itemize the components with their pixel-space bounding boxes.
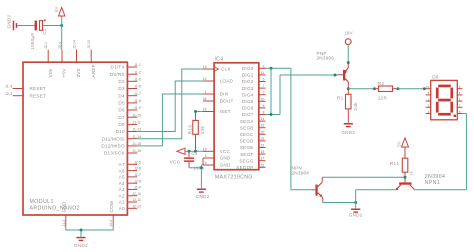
svg-text:J2-2: J2-2 bbox=[109, 220, 113, 227]
svg-text:D1/TX: D1/TX bbox=[111, 65, 125, 70]
svg-text:J2-1: J2-1 bbox=[44, 42, 48, 49]
svg-text:3V3: 3V3 bbox=[76, 68, 81, 77]
svg-text:R1: R1 bbox=[337, 96, 344, 101]
svg-text:J2-3: J2-3 bbox=[5, 92, 12, 96]
svg-text:J2-8: J2-8 bbox=[134, 179, 141, 183]
module MODUL1 ARDUINO_NANO2 body bbox=[23, 62, 127, 215]
node PNP collector junction bbox=[347, 87, 350, 90]
display D6 right pin 3 bbox=[457, 97, 462, 101]
supply 18V (circle) bbox=[344, 31, 352, 45]
IC4 pin 18 ISET bbox=[203, 108, 231, 115]
ground GND2 (below IC4) bbox=[196, 189, 210, 199]
svg-text:A1: A1 bbox=[119, 200, 125, 205]
svg-text:J1-4: J1-4 bbox=[62, 220, 66, 227]
svg-text:J1-7: J1-7 bbox=[134, 92, 141, 96]
transistor Q2 NPN 2N3904 bbox=[292, 166, 323, 203]
svg-text:J2-9: J2-9 bbox=[134, 186, 141, 190]
module pin D1/TX (J1-1) bbox=[111, 63, 142, 70]
svg-text:GND2: GND2 bbox=[196, 194, 210, 199]
svg-text:SEGA: SEGA bbox=[240, 119, 254, 124]
svg-text:2: 2 bbox=[263, 64, 265, 68]
wire net D12/MISO to DIN bbox=[137, 94, 203, 146]
svg-text:SEGF: SEGF bbox=[240, 152, 254, 157]
node PNP base junction bbox=[334, 74, 337, 77]
IC4 pin 10 DIG5 bbox=[242, 97, 266, 104]
IC4 pin 9 GND bbox=[203, 161, 231, 168]
module pin D10 (J1-13) bbox=[116, 128, 141, 135]
svg-text:D2: D2 bbox=[118, 79, 125, 84]
svg-text:J1-9: J1-9 bbox=[134, 106, 141, 110]
svg-text:J1-5: J1-5 bbox=[134, 77, 141, 81]
IC4 pin 4 GND bbox=[203, 154, 231, 161]
IC4 pin 20 SEGC bbox=[240, 130, 266, 137]
display D6 right pin 6 bbox=[457, 85, 462, 89]
IC4 pin 5 DIG6 bbox=[242, 104, 266, 111]
wire ground to C2 bbox=[17, 25, 34, 27]
ground GND2 (top left) bbox=[7, 14, 18, 30]
svg-text:ARDUINO_NANO2: ARDUINO_NANO2 bbox=[30, 206, 81, 212]
IC4 pin 2 DIG0 bbox=[242, 64, 266, 71]
node display anode junction bbox=[423, 87, 426, 90]
module pin 3V3 (J2-14) bbox=[72, 40, 81, 77]
svg-text:DIG3: DIG3 bbox=[242, 86, 254, 91]
svg-text:J2-7: J2-7 bbox=[134, 173, 141, 177]
svg-text:C3: C3 bbox=[191, 151, 197, 156]
resistor R19 10k bbox=[188, 112, 205, 152]
svg-text:J2-5: J2-5 bbox=[134, 160, 141, 164]
svg-text:6: 6 bbox=[263, 78, 265, 82]
svg-text:5V: 5V bbox=[54, 6, 59, 12]
svg-text:VIN: VIN bbox=[48, 69, 53, 77]
node VCC junctions bbox=[188, 150, 198, 153]
svg-text:7: 7 bbox=[263, 84, 265, 88]
svg-text:A4: A4 bbox=[119, 181, 125, 186]
ground GND2 (below module) bbox=[74, 237, 88, 248]
svg-text:J2-14: J2-14 bbox=[72, 40, 76, 49]
svg-text:D10: D10 bbox=[116, 129, 125, 134]
IC4 pin 12 LOAD bbox=[203, 77, 234, 84]
svg-text:SEGG: SEGG bbox=[239, 158, 253, 163]
svg-text:SEGE: SEGE bbox=[240, 145, 254, 150]
IC4 pin 8 DIG7 bbox=[242, 111, 266, 118]
svg-text:SEGD: SEGD bbox=[240, 139, 254, 144]
IC4 pin 7 DIG3 bbox=[242, 84, 266, 91]
node ground junction (module bottom) bbox=[80, 229, 83, 232]
op-amp-style IC U1: IC4 MAX7219CNG body bbox=[214, 56, 259, 180]
svg-text:RESET: RESET bbox=[30, 86, 47, 91]
resistor R2 22R bbox=[375, 81, 399, 101]
svg-text:5: 5 bbox=[263, 104, 265, 108]
svg-text:J1-1: J1-1 bbox=[134, 63, 141, 67]
svg-text:D4: D4 bbox=[118, 93, 125, 98]
wire net D11/MOSI to CLK bbox=[137, 69, 203, 139]
svg-text:J1-10: J1-10 bbox=[132, 113, 141, 117]
supply VCC arrow (left) bbox=[170, 148, 185, 164]
svg-text:DIG6: DIG6 bbox=[242, 106, 254, 111]
svg-text:D13/SCK: D13/SCK bbox=[104, 151, 126, 156]
module pin A3 (J2-9) bbox=[119, 186, 141, 193]
supply 5V arrow (right) bbox=[397, 138, 409, 158]
svg-text:15: 15 bbox=[261, 150, 265, 154]
resistor R1 24k bbox=[337, 89, 358, 123]
module pin +5V (J2-4) bbox=[58, 42, 67, 77]
module pin RESET (J1-3) bbox=[5, 85, 46, 92]
node DIG7 junction bbox=[270, 113, 273, 116]
wire 18V to PNP emitter bbox=[347, 45, 349, 63]
node C3/GND junction bbox=[200, 166, 203, 169]
svg-text:2N3904: 2N3904 bbox=[292, 170, 310, 175]
module pin D11/MOSI (J1-14) bbox=[102, 135, 141, 142]
module pin A7 (J2-5) bbox=[119, 160, 141, 167]
svg-text:J1-6: J1-6 bbox=[134, 85, 141, 89]
module pin A2 (J2-10) bbox=[119, 192, 141, 199]
svg-text:DIG1: DIG1 bbox=[242, 73, 254, 78]
node R11/NPN1 base junction bbox=[404, 176, 407, 179]
svg-text:J1-2: J1-2 bbox=[134, 70, 141, 74]
IC4 pin 21 SEGE bbox=[240, 144, 266, 151]
svg-text:J1-16: J1-16 bbox=[132, 149, 141, 153]
node ISET junction bbox=[194, 110, 197, 113]
svg-text:R2: R2 bbox=[378, 81, 385, 86]
module pin D2 (J1-5) bbox=[118, 77, 141, 84]
IC4 pin 1 DIN bbox=[203, 90, 228, 97]
node R2 right junction bbox=[397, 87, 400, 90]
wire emitter node to NPN1 emitter bbox=[356, 190, 396, 203]
svg-text:DIG0: DIG0 bbox=[242, 66, 254, 71]
transistor Q3 2N3904 NPN1 bbox=[396, 174, 445, 190]
svg-text:8: 8 bbox=[263, 111, 265, 115]
svg-text:A7: A7 bbox=[119, 162, 125, 167]
svg-text:J1-3: J1-3 bbox=[5, 85, 12, 89]
module pin A1 (J2-11) bbox=[119, 198, 141, 205]
svg-text:D6: D6 bbox=[118, 108, 125, 113]
svg-text:IC4: IC4 bbox=[215, 56, 224, 62]
IC4 pin 14 SEGA bbox=[240, 117, 266, 124]
module pin D4 (J1-7) bbox=[118, 92, 141, 99]
svg-text:+5V: +5V bbox=[62, 68, 67, 78]
svg-text:9: 9 bbox=[205, 161, 207, 165]
display D6 right pin 5 bbox=[457, 110, 462, 114]
svg-text:NPN1: NPN1 bbox=[425, 180, 440, 186]
svg-text:24: 24 bbox=[203, 97, 207, 101]
module pin D12/MISO (J1-15) bbox=[101, 142, 141, 149]
svg-text:LOAD: LOAD bbox=[220, 79, 234, 84]
wire net D10 to LOAD bbox=[137, 81, 203, 132]
ground GND2 (below R1) bbox=[341, 123, 355, 135]
wire ISET to R19 bbox=[196, 111, 204, 113]
IC4 pin 11 DIG1 bbox=[242, 71, 266, 78]
wire VCC to IC VCC pin bbox=[185, 150, 203, 152]
svg-text:13: 13 bbox=[203, 65, 207, 69]
svg-text:VCC: VCC bbox=[170, 159, 181, 164]
IC4 pin 3 DIG4 bbox=[242, 91, 266, 98]
svg-text:D7: D7 bbox=[118, 115, 125, 120]
svg-text:R11: R11 bbox=[390, 161, 399, 166]
wire C3 to ground bbox=[189, 167, 201, 169]
node +5V junction bbox=[60, 24, 63, 27]
wire NPN collector to R11 node bbox=[322, 176, 405, 178]
capacitor C2 1000uF bbox=[30, 19, 47, 50]
svg-text:C2: C2 bbox=[42, 28, 47, 35]
module pin D6 (J1-9) bbox=[118, 106, 141, 113]
supply 5V arrow (top) bbox=[54, 6, 65, 25]
module pin GND (J1-4) bbox=[62, 201, 67, 227]
svg-text:D6: D6 bbox=[432, 75, 439, 80]
display D6 segments figure-8 bbox=[436, 85, 456, 117]
IC4 pin 19 VCC bbox=[203, 147, 231, 154]
svg-text:DIG5: DIG5 bbox=[242, 99, 254, 104]
svg-text:DIG7: DIG7 bbox=[242, 112, 254, 117]
display D6 left pin 9 bbox=[426, 91, 431, 95]
wire PNP collector to R2 bbox=[348, 88, 374, 90]
display D6 left pin 4 bbox=[426, 110, 431, 114]
module pin RESET (J2-3) bbox=[5, 92, 46, 99]
svg-text:22: 22 bbox=[261, 163, 265, 167]
svg-text:19: 19 bbox=[203, 147, 207, 151]
svg-text:D11/MOSI: D11/MOSI bbox=[102, 136, 125, 141]
svg-text:AREF: AREF bbox=[91, 64, 96, 77]
svg-text:DIG2: DIG2 bbox=[242, 79, 254, 84]
capacitor C3 100n bbox=[184, 151, 204, 171]
wire C2 to 5V node bbox=[43, 25, 62, 27]
svg-text:A2: A2 bbox=[119, 193, 125, 198]
display D6 left pin 10 bbox=[426, 85, 431, 89]
svg-text:CLK: CLK bbox=[221, 67, 231, 72]
svg-text:MODUL1: MODUL1 bbox=[30, 199, 54, 205]
svg-text:18V: 18V bbox=[344, 31, 352, 36]
svg-text:D8: D8 bbox=[118, 122, 125, 127]
svg-text:GND2: GND2 bbox=[341, 130, 355, 135]
display D6 7-segment body bbox=[431, 75, 458, 120]
svg-text:1: 1 bbox=[205, 90, 207, 94]
IC4 pin 24 DOUT bbox=[203, 97, 234, 104]
svg-text:A6: A6 bbox=[119, 168, 125, 173]
IC4 pin 6 DIG2 bbox=[242, 78, 266, 85]
svg-text:23: 23 bbox=[261, 137, 265, 141]
svg-text:J1-8: J1-8 bbox=[134, 99, 141, 103]
svg-text:D3: D3 bbox=[118, 86, 125, 91]
svg-text:GND: GND bbox=[62, 201, 67, 212]
svg-text:SEGC: SEGC bbox=[240, 132, 254, 137]
IC4 pin 15 SEGF bbox=[240, 150, 265, 157]
IC4 pin 22 SEGDP bbox=[236, 163, 265, 170]
module pin VIN (J2-1) bbox=[44, 42, 53, 77]
svg-text:1000µF: 1000µF bbox=[30, 32, 35, 49]
svg-text:1k: 1k bbox=[410, 171, 414, 175]
module pin D0/RX (J1-2) bbox=[110, 70, 141, 77]
svg-text:18: 18 bbox=[203, 108, 207, 112]
display D6 left pin 1 bbox=[426, 97, 431, 101]
svg-text:5V: 5V bbox=[397, 141, 402, 147]
wire net DIG7 to PNP base bbox=[266, 68, 338, 114]
svg-text:10k: 10k bbox=[200, 125, 205, 134]
node R2 left junction bbox=[373, 87, 376, 90]
svg-text:J2-12: J2-12 bbox=[132, 204, 141, 208]
svg-text:A0: A0 bbox=[119, 206, 125, 211]
svg-text:22R: 22R bbox=[378, 95, 388, 100]
svg-text:D0/RX: D0/RX bbox=[110, 72, 125, 77]
module pin A4 (J2-8) bbox=[119, 179, 141, 186]
ground GND2 (below NPN) bbox=[349, 203, 363, 218]
svg-text:GND2: GND2 bbox=[349, 212, 363, 217]
svg-text:A3: A3 bbox=[119, 187, 125, 192]
svg-text:10: 10 bbox=[261, 97, 265, 101]
svg-text:RESET: RESET bbox=[30, 93, 47, 98]
node PNP emitter connection bbox=[347, 61, 350, 64]
svg-text:10: 10 bbox=[426, 85, 430, 89]
svg-text:21: 21 bbox=[261, 144, 265, 148]
svg-text:16: 16 bbox=[261, 124, 265, 128]
svg-text:14: 14 bbox=[261, 117, 265, 121]
svg-text:GND: GND bbox=[220, 156, 231, 161]
display D6 right pin 7 bbox=[457, 104, 462, 108]
svg-text:24k: 24k bbox=[353, 102, 358, 111]
module pin A6 (J2-6) bbox=[119, 167, 141, 174]
module pin D5 (J1-8) bbox=[118, 99, 141, 106]
wire 5V node down to +5V pin bbox=[61, 26, 63, 50]
module pin AREF (J2-13) bbox=[87, 40, 96, 77]
node NPN emitter ground junction bbox=[354, 201, 357, 204]
svg-text:2N3906: 2N3906 bbox=[317, 56, 335, 61]
module pin D7 (J1-10) bbox=[118, 113, 141, 120]
node DIG0 junction bbox=[270, 67, 273, 70]
svg-text:GND2: GND2 bbox=[7, 14, 12, 28]
wire NPN emitter to ground node bbox=[323, 202, 356, 204]
resistor R11 1k bbox=[390, 158, 414, 177]
display D6 left pin 2 bbox=[426, 104, 431, 108]
svg-text:ISET: ISET bbox=[220, 109, 231, 114]
IC4 pin 13 CLK bbox=[203, 65, 232, 72]
wire module GND/COM pins to ground bbox=[66, 227, 113, 237]
svg-text:J1-11: J1-11 bbox=[132, 121, 141, 125]
svg-text:DOUT: DOUT bbox=[220, 99, 234, 104]
svg-text:D12/MISO: D12/MISO bbox=[101, 144, 125, 149]
svg-text:D5: D5 bbox=[118, 101, 125, 106]
svg-text:J2-13: J2-13 bbox=[87, 40, 91, 49]
svg-text:GND: GND bbox=[220, 163, 231, 168]
svg-text:R19: R19 bbox=[188, 125, 193, 134]
svg-text:DIN: DIN bbox=[220, 92, 229, 97]
module pin D3 (J1-6) bbox=[118, 85, 141, 92]
IC4 pin 23 SEGD bbox=[240, 137, 266, 144]
IC4 pin 17 SEGG bbox=[239, 157, 265, 164]
svg-text:J2-10: J2-10 bbox=[132, 192, 141, 196]
transistor Q1 PNP 2N3906 bbox=[317, 51, 349, 89]
wire display cathode to NPN1 collector bbox=[414, 114, 466, 190]
svg-text:4: 4 bbox=[205, 154, 207, 158]
svg-text:11: 11 bbox=[261, 71, 265, 75]
wire R2 to display bbox=[398, 88, 424, 90]
svg-text:17: 17 bbox=[261, 157, 265, 161]
IC4 CLK clock mark bbox=[214, 67, 218, 72]
svg-text:J2-11: J2-11 bbox=[132, 198, 141, 202]
svg-text:MAX7219CNG: MAX7219CNG bbox=[215, 174, 253, 180]
svg-text:COM: COM bbox=[109, 201, 114, 212]
svg-text:20: 20 bbox=[261, 130, 265, 134]
module pin A5 (J2-7) bbox=[119, 173, 141, 180]
module pin A0 (J2-12) bbox=[119, 204, 141, 211]
wire IC GND pins tie bbox=[201, 158, 203, 188]
module pin D13/SCK (J1-16) bbox=[104, 149, 141, 156]
svg-text:GND2: GND2 bbox=[74, 243, 88, 248]
IC4 pin 16 SEGB bbox=[240, 124, 266, 131]
svg-text:A5: A5 bbox=[119, 175, 125, 180]
wire net DIG0 to NPN base bbox=[266, 68, 312, 190]
display D6 right pin 8 bbox=[457, 91, 462, 95]
svg-text:VCC: VCC bbox=[220, 149, 231, 154]
svg-text:SEGB: SEGB bbox=[240, 125, 254, 130]
svg-text:3: 3 bbox=[263, 91, 265, 95]
svg-text:SEGDP: SEGDP bbox=[236, 165, 253, 170]
svg-text:12: 12 bbox=[203, 77, 207, 81]
module pin D8 (J1-11) bbox=[118, 121, 141, 128]
svg-text:J2-6: J2-6 bbox=[134, 167, 141, 171]
module pin COM (J2-2) bbox=[109, 201, 114, 227]
svg-text:DIG4: DIG4 bbox=[242, 92, 254, 97]
